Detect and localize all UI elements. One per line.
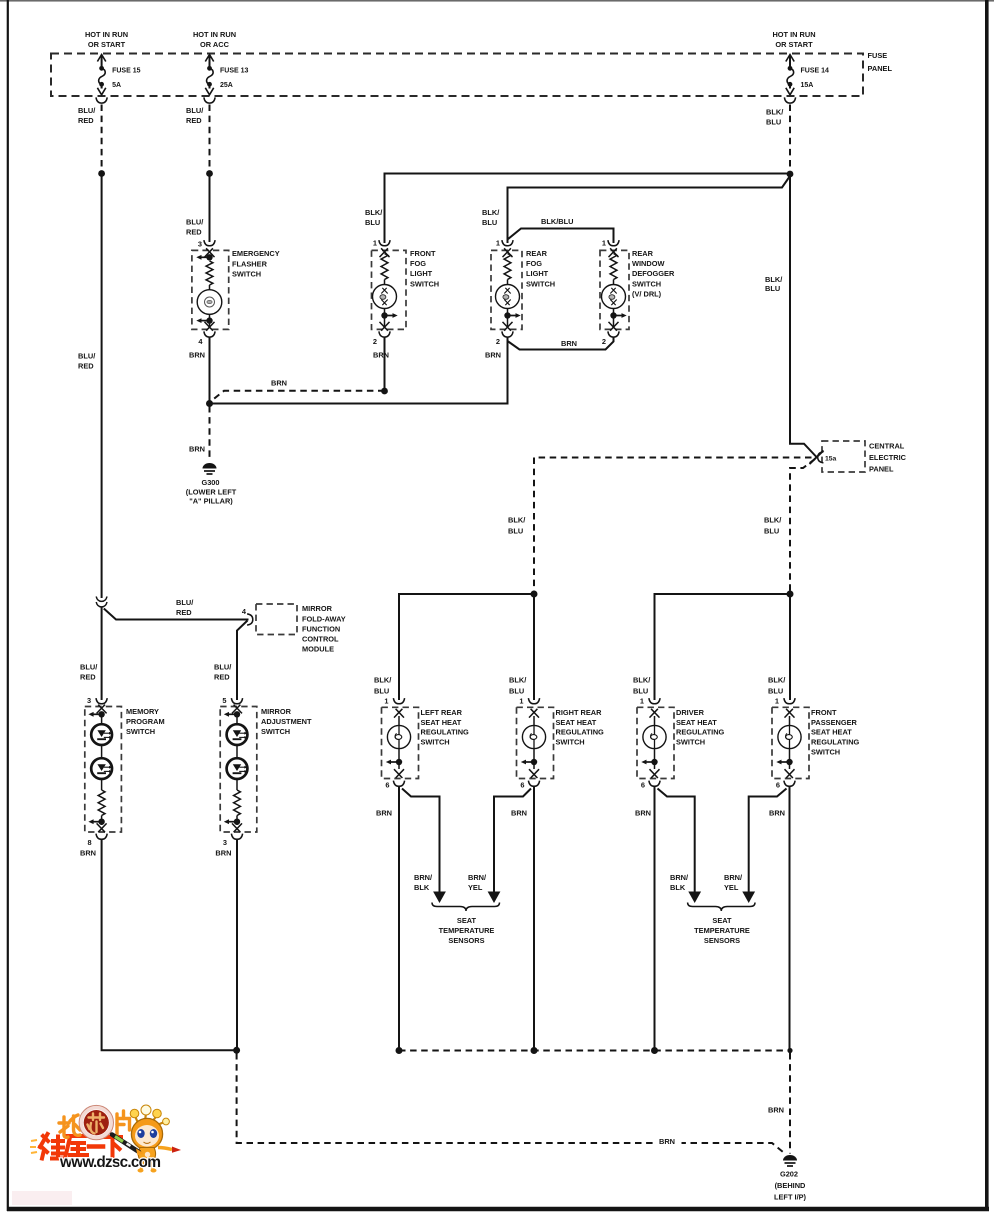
wire label BLU/RED (memory switch) <box>80 663 97 682</box>
pin 1 connector (left rear seat heat regulating switch) <box>384 697 404 706</box>
bottom contact arrow (mirror adjustment switch) <box>224 816 242 833</box>
junction dot bottom left <box>233 1047 240 1054</box>
wire label BLU/RED (col2 top) <box>186 106 203 125</box>
svg-text:CENTRAL: CENTRAL <box>869 442 905 451</box>
wire: flasher pin4 down to junction <box>209 337 211 404</box>
wire label BRN (driver) <box>635 809 651 818</box>
pin 1 connector (front passenger seat heat regulating switch) <box>775 697 795 706</box>
wire: rear fog / defogger BRN jumper <box>508 337 614 350</box>
wire: rear fog down + BRN bus to flasher junction <box>210 337 508 404</box>
ground label G300 (LOWER LEFT "A" PILLAR) <box>186 478 237 506</box>
pin 1 connector (rear window defogger switch) <box>602 239 619 248</box>
fuse value label FUSE 14 15A <box>801 68 830 90</box>
junction dot flasher BRN <box>206 400 213 407</box>
fuse panel label <box>868 51 893 73</box>
rear fog light switch <box>491 249 555 329</box>
fuse value label FUSE 13 25A <box>220 68 249 90</box>
svg-text:SEAT: SEAT <box>712 916 732 925</box>
svg-text:1: 1 <box>775 697 779 706</box>
wire: dashed BRN to G202 (lower run) <box>237 1053 783 1152</box>
svg-text:REGULATING: REGULATING <box>421 728 470 737</box>
svg-text:BRN: BRN <box>189 351 205 360</box>
wire label BRN (rear fog pin 2) <box>485 351 501 360</box>
front fog light switch <box>372 249 440 329</box>
svg-text:FUSE 14: FUSE 14 <box>801 68 830 75</box>
svg-text:SWITCH: SWITCH <box>126 727 155 736</box>
svg-text:BRN: BRN <box>511 809 527 818</box>
svg-text:3: 3 <box>87 696 91 705</box>
svg-text:BLU: BLU <box>509 687 524 696</box>
wire: driver switch output down <box>654 787 656 1051</box>
svg-text:HOT IN RUN: HOT IN RUN <box>772 30 815 39</box>
junction dot front passenger bottom <box>787 1048 792 1053</box>
fuse F13 25A with feed arrows <box>204 55 215 104</box>
wire label BRN (G202 lead) <box>768 1106 784 1115</box>
svg-text:(BEHIND: (BEHIND <box>775 1181 806 1190</box>
wire label BLU/RED (module branch) <box>176 598 193 617</box>
svg-text:SWITCH: SWITCH <box>410 279 439 288</box>
pin 2 connector (rear window defogger switch) <box>602 331 619 346</box>
wire: mirror adjustment switch down <box>236 839 238 1049</box>
svg-text:YEL: YEL <box>468 883 483 892</box>
wire: col6 solid drop to central electric panel <box>790 174 817 457</box>
wire label BLU/RED (col1 top) <box>78 106 95 125</box>
splice junction col1 <box>98 170 105 177</box>
pin 3 connector (memory program switch) <box>87 696 107 705</box>
svg-text:REGULATING: REGULATING <box>556 728 605 737</box>
svg-text:BLK/BLU: BLK/BLU <box>541 217 573 226</box>
svg-text:FUSE 15: FUSE 15 <box>112 68 141 75</box>
svg-text:BLU: BLU <box>508 527 523 536</box>
svg-text:FRONT: FRONT <box>410 249 436 258</box>
junction dot left distribution <box>531 591 538 598</box>
wire: dashed BRN down to G202 <box>789 1053 791 1154</box>
svg-text:6: 6 <box>641 781 645 790</box>
svg-text:RED: RED <box>78 362 94 371</box>
svg-text:RED: RED <box>186 228 202 237</box>
svg-text:RED: RED <box>186 116 202 125</box>
resistor element (rear window defogger switch) <box>610 254 617 280</box>
junction dot right rear bottom <box>531 1047 538 1054</box>
wire: right rear switch output down <box>533 787 535 1051</box>
emergency flasher switch <box>192 249 280 329</box>
wire: dashed drop from fuse 13 <box>209 105 211 171</box>
wire: to driver seat switch <box>655 594 791 700</box>
flasher internal contact arrow (bottom) <box>196 314 214 330</box>
seat temperature sensors brace (group 2) <box>688 903 755 912</box>
wire: BLK/BLU bus to front fog switch (line1) <box>385 174 791 244</box>
svg-text:BRN: BRN <box>768 1106 784 1115</box>
bottom contact arrow (memory program switch) <box>88 816 106 833</box>
mirror fold-away module label <box>302 604 346 653</box>
contact arrow top (mirror adjustment switch) <box>224 705 242 724</box>
svg-text:BLU/: BLU/ <box>186 218 203 227</box>
output dot with arrow (left rear seat heat regulating switch) <box>386 749 404 778</box>
flasher resistor element <box>206 261 213 285</box>
svg-text:1: 1 <box>519 697 523 706</box>
central electric panel label <box>869 442 907 474</box>
wire: dashed BLK/BLU from panel to left drop <box>534 458 812 593</box>
svg-text:6: 6 <box>520 781 524 790</box>
pin 8 connector (memory program switch) <box>87 834 107 848</box>
wire label BRN/BLK (group 1) <box>414 873 432 892</box>
svg-text:SWITCH: SWITCH <box>232 270 261 279</box>
pin 2 connector (front fog light switch) <box>373 331 390 346</box>
fuse value label FUSE 15 5A <box>112 68 141 90</box>
svg-text:G300: G300 <box>201 478 219 487</box>
svg-text:OR ACC: OR ACC <box>200 40 230 49</box>
svg-text:BLU: BLU <box>766 118 781 127</box>
wire label BLK/BLU (driver seat heat regulating switch) <box>633 676 650 696</box>
junction dot right distribution <box>787 591 794 598</box>
wire: left rear switch output down <box>398 787 400 1051</box>
svg-text:G202: G202 <box>780 1170 798 1179</box>
connector receptacle at central electric panel <box>818 452 824 463</box>
pin 6 connector (right rear seat heat regulating switch) <box>520 781 539 790</box>
ground G300 symbol <box>203 463 217 474</box>
wire: dashed drop from fuse 14 <box>789 105 791 171</box>
svg-text:BRN: BRN <box>635 809 651 818</box>
illumination lamp (rear fog light switch) <box>496 280 520 309</box>
wire label BLK/BLU (right drop) <box>764 516 781 536</box>
svg-text:BLU: BLU <box>633 687 648 696</box>
wire: col1 to memory program switch <box>101 608 103 701</box>
wire: right rear sensor branch BRN/YEL <box>494 789 531 892</box>
wire label BRN (memory program switch) <box>80 849 96 858</box>
wire label BLU/RED (col1 mid) <box>78 352 95 371</box>
svg-text:RED: RED <box>214 673 230 682</box>
svg-text:SENSORS: SENSORS <box>704 936 740 945</box>
pin 6 connector (left rear seat heat regulating switch) <box>385 781 404 790</box>
wire label BRN/YEL (group 1) <box>468 873 486 892</box>
LED 2 (mirror adjustment switch) <box>227 745 248 790</box>
svg-text:BRN/: BRN/ <box>414 873 432 882</box>
svg-text:SWITCH: SWITCH <box>526 279 555 288</box>
svg-text:HOT IN RUN: HOT IN RUN <box>85 30 128 39</box>
wire label BLK/BLU (col6 top) <box>766 108 783 127</box>
svg-text:BLU: BLU <box>374 687 389 696</box>
pin 1 connector (front fog light switch) <box>373 239 390 248</box>
svg-text:REAR: REAR <box>526 249 548 258</box>
svg-text:SEAT HEAT: SEAT HEAT <box>676 718 717 727</box>
svg-text:FOG: FOG <box>526 259 542 268</box>
svg-text:25A: 25A <box>220 82 233 89</box>
svg-text:3: 3 <box>223 838 227 847</box>
wire label BLK/BLU (left rear seat heat regulating switch) <box>374 676 391 696</box>
mirror fold-away function control module box <box>256 604 297 635</box>
svg-text:5A: 5A <box>112 82 121 89</box>
wire label BRN (front fog pin 2) <box>373 351 389 360</box>
pin 6 connector (driver seat heat regulating switch) <box>641 781 660 790</box>
svg-text:BLU: BLU <box>482 218 497 227</box>
wire label BLK/BLU (front fog) <box>365 208 382 227</box>
watermark logo www.dzsc.com (decorative) <box>30 1105 181 1173</box>
wire: dashed BLK/BLU from panel to right drop <box>790 459 815 592</box>
contact arrow top (memory program switch) <box>88 705 106 724</box>
wire: front passenger switch output down <box>789 787 791 1051</box>
pin 1 connector (rear fog light switch) <box>496 239 513 248</box>
wire: to right rear seat switch <box>533 594 535 700</box>
contact arrow top (right rear seat heat regulating switch) <box>529 709 539 726</box>
contact arrow top (front passenger seat heat regulating switch) <box>785 709 795 726</box>
fuse panel dashed box <box>51 54 863 97</box>
wire: memory switch down and across <box>102 839 234 1050</box>
power label HOT IN RUN OR ACC (col 2) <box>193 30 236 49</box>
svg-text:BLK/: BLK/ <box>764 516 781 525</box>
svg-text:BRN: BRN <box>215 849 231 858</box>
svg-text:FUNCTION: FUNCTION <box>302 624 340 633</box>
output dot with arrow (front passenger seat heat regulating switch) <box>776 749 794 778</box>
svg-text:REAR: REAR <box>632 249 654 258</box>
resistor element (front fog light switch) <box>381 254 388 280</box>
wire label BLK/BLU (jumper) <box>541 217 573 226</box>
svg-text:BRN/: BRN/ <box>670 873 688 882</box>
svg-text:REGULATING: REGULATING <box>811 738 860 747</box>
svg-text:BLU/: BLU/ <box>214 663 231 672</box>
fuse F15 5A with feed arrows <box>96 55 107 104</box>
svg-text:EMERGENCY: EMERGENCY <box>232 249 280 258</box>
svg-text:SWITCH: SWITCH <box>261 727 290 736</box>
wire label BRN (front passenger) <box>769 809 785 818</box>
pin 6 connector (front passenger seat heat regulating switch) <box>776 781 795 790</box>
svg-text:FUSE: FUSE <box>868 51 888 60</box>
svg-text:PASSENGER: PASSENGER <box>811 718 858 727</box>
pale pink block bottom-left <box>12 1191 72 1205</box>
svg-text:ELECTRIC: ELECTRIC <box>869 453 907 462</box>
svg-text:BLK/: BLK/ <box>508 516 525 525</box>
wire: front passenger sensor branch BRN/YEL <box>749 789 787 892</box>
svg-text:LIGHT: LIGHT <box>410 269 433 278</box>
svg-text:"A" PILLAR): "A" PILLAR) <box>189 497 233 506</box>
wire label BLK/BLU (left drop) <box>508 516 525 536</box>
wire label BLK/BLU (front passenger seat heat regulating switch) <box>768 676 785 696</box>
svg-text:1: 1 <box>384 697 388 706</box>
svg-text:BRN: BRN <box>485 351 501 360</box>
svg-text:FRONT: FRONT <box>811 708 837 717</box>
illumination lamp (rear window defogger switch) <box>602 280 626 309</box>
svg-text:BLU/: BLU/ <box>78 352 95 361</box>
wire label BRN (G300 lead) <box>189 445 205 454</box>
svg-text:BRN: BRN <box>373 351 389 360</box>
fuse F14 15A with feed arrows <box>784 55 795 104</box>
wire: dashed BRN bus along bottom <box>399 1050 790 1052</box>
wire: to front passenger seat switch <box>789 594 791 700</box>
svg-text:SWITCH: SWITCH <box>811 748 840 757</box>
svg-text:1: 1 <box>373 239 377 248</box>
wire: branch down to mirror adjustment switch <box>237 621 248 701</box>
svg-text:BLU: BLU <box>365 218 380 227</box>
regulating lamp (right rear seat heat regulating switch) <box>522 725 545 748</box>
svg-text:BRN: BRN <box>80 849 96 858</box>
splice junction col2 <box>206 170 213 177</box>
svg-text:8: 8 <box>87 838 91 847</box>
svg-text:BLK/: BLK/ <box>768 676 785 685</box>
wire label BRN (mirror adjustment switch) <box>215 849 231 858</box>
svg-text:BRN: BRN <box>189 445 205 454</box>
junction dot left rear bottom <box>396 1047 403 1054</box>
svg-text:2: 2 <box>496 337 500 346</box>
svg-text:TEMPERATURE: TEMPERATURE <box>694 926 750 935</box>
svg-text:YEL: YEL <box>724 883 739 892</box>
svg-text:SWITCH: SWITCH <box>421 738 450 747</box>
svg-text:FLASHER: FLASHER <box>232 259 268 268</box>
svg-text:FUSE 13: FUSE 13 <box>220 68 249 75</box>
left rear seat heat regulating switch <box>382 707 470 778</box>
wire label BRN (flasher pin 4) <box>189 351 205 360</box>
svg-text:PANEL: PANEL <box>869 464 894 473</box>
svg-text:2: 2 <box>373 337 377 346</box>
svg-text:2: 2 <box>602 337 606 346</box>
svg-text:BLU/: BLU/ <box>186 106 203 115</box>
svg-text:BLK: BLK <box>414 883 430 892</box>
right rear seat heat regulating switch <box>517 707 605 778</box>
svg-text:CONTROL: CONTROL <box>302 635 339 644</box>
flasher illumination lamp <box>197 285 222 314</box>
label seat temperature sensors (group 1) <box>439 916 495 945</box>
svg-text:5: 5 <box>222 696 226 705</box>
svg-text:RED: RED <box>80 673 96 682</box>
contact arrow top (rear window defogger switch) <box>609 248 619 257</box>
output dot with arrow (front fog light switch) <box>380 309 398 331</box>
svg-text:BRN: BRN <box>659 1137 675 1146</box>
svg-text:BRN/: BRN/ <box>724 873 742 882</box>
svg-text:BRN: BRN <box>376 809 392 818</box>
wire: dashed drop from fuse 15 <box>101 105 103 171</box>
svg-text:ADJUSTMENT: ADJUSTMENT <box>261 717 312 726</box>
wire: driver sensor branch BRN/BLK <box>658 789 695 892</box>
wire: to left rear seat switch <box>399 594 534 700</box>
svg-text:BLK/: BLK/ <box>482 208 499 217</box>
wire label BLK/BLU (col6 mid) <box>765 275 782 293</box>
regulating lamp (driver seat heat regulating switch) <box>643 725 666 748</box>
svg-text:BLU: BLU <box>768 687 783 696</box>
pin 4 connector (module) <box>242 607 253 625</box>
svg-text:FOG: FOG <box>410 259 426 268</box>
svg-text:REGULATING: REGULATING <box>676 728 725 737</box>
svg-text:BRN: BRN <box>561 339 577 348</box>
wire: dashed BRN down to G300 <box>209 406 211 462</box>
driver seat heat regulating switch <box>637 707 725 778</box>
svg-text:DRIVER: DRIVER <box>676 708 705 717</box>
power label HOT IN RUN OR START (col 3) <box>772 30 815 49</box>
output dot with arrow (rear window defogger switch) <box>609 309 627 331</box>
resistor element (mirror adjustment switch) <box>234 790 241 815</box>
wire: BLK/BLU bus to rear fog switch (line2) <box>508 176 791 243</box>
svg-text:(LOWER LEFT: (LOWER LEFT <box>186 488 237 497</box>
junction dot driver bottom <box>651 1047 658 1054</box>
LED 2 (memory program switch) <box>91 745 112 790</box>
wire: BLK/BLU jumper rear fog to defogger <box>508 229 614 244</box>
svg-text:OR START: OR START <box>88 40 126 49</box>
regulating lamp (front passenger seat heat regulating switch) <box>778 725 801 748</box>
svg-text:BLK: BLK <box>670 883 686 892</box>
rear window defogger switch <box>600 249 675 329</box>
svg-text:DEFOGGER: DEFOGGER <box>632 269 675 278</box>
LED 1 (mirror adjustment switch) <box>227 724 248 745</box>
svg-text:HOT IN RUN: HOT IN RUN <box>193 30 236 39</box>
svg-text:SEAT HEAT: SEAT HEAT <box>556 718 597 727</box>
pin 1 connector (right rear seat heat regulating switch) <box>519 697 539 706</box>
svg-text:BLU: BLU <box>765 284 780 293</box>
wire: front fog pin2 down to BRN splice <box>384 337 386 390</box>
svg-text:6: 6 <box>776 781 780 790</box>
wire label BLU/RED (mirror adjustment switch) <box>214 663 231 682</box>
wire: left rear sensor branch BRN/BLK <box>402 789 440 892</box>
svg-text:WINDOW: WINDOW <box>632 259 664 268</box>
inline connector break col1 <box>96 597 107 607</box>
svg-text:BLK/: BLK/ <box>509 676 526 685</box>
svg-text:BLU/: BLU/ <box>176 598 193 607</box>
ground label G202 (BEHIND LEFT I/P) <box>774 1170 807 1202</box>
svg-text:BLK/: BLK/ <box>633 676 650 685</box>
wire: col2 solid drop to flasher pin 3 <box>209 174 211 243</box>
svg-text:1: 1 <box>640 697 644 706</box>
ground G202 symbol <box>783 1155 797 1166</box>
front passenger seat heat regulating switch <box>772 707 860 778</box>
contact arrow top (rear fog light switch) <box>503 248 513 257</box>
svg-text:MODULE: MODULE <box>302 645 334 654</box>
wire label BRN (right rear) <box>511 809 527 818</box>
svg-text:LIGHT: LIGHT <box>526 269 549 278</box>
svg-text:BLK/: BLK/ <box>374 676 391 685</box>
svg-text:PANEL: PANEL <box>868 64 893 73</box>
wire label BRN/YEL (group 2) <box>724 873 742 892</box>
pin 5 connector (mirror adjustment switch) <box>222 696 242 705</box>
svg-text:SEAT HEAT: SEAT HEAT <box>811 728 852 737</box>
regulating lamp (left rear seat heat regulating switch) <box>387 725 410 748</box>
svg-text:(V/ DRL): (V/ DRL) <box>632 289 662 298</box>
output dot with arrow (driver seat heat regulating switch) <box>641 749 659 778</box>
LED 1 (memory program switch) <box>91 724 112 745</box>
wire: col1 solid drop <box>101 174 103 599</box>
wire: dashed BRN from front fog splice to flasher junction <box>211 391 385 402</box>
svg-text:SEAT HEAT: SEAT HEAT <box>421 718 462 727</box>
wire label BRN/BLK (group 2) <box>670 873 688 892</box>
pin 4 connector (flasher) <box>198 331 215 346</box>
svg-text:SWITCH: SWITCH <box>676 738 705 747</box>
svg-text:RED: RED <box>78 116 94 125</box>
svg-text:MIRROR: MIRROR <box>302 604 333 613</box>
output dot with arrow (rear fog light switch) <box>503 309 521 331</box>
wire label BLU/RED (col2 above pin 3) <box>186 218 203 237</box>
svg-text:RED: RED <box>176 608 192 617</box>
memory program switch <box>85 707 165 833</box>
svg-text:SWITCH: SWITCH <box>556 738 585 747</box>
svg-text:BLK/: BLK/ <box>765 275 782 284</box>
contact arrow top (front fog light switch) <box>380 248 390 257</box>
svg-text:1: 1 <box>602 239 606 248</box>
illumination lamp (front fog light switch) <box>373 280 397 309</box>
label seat temperature sensors (group 2) <box>694 916 750 945</box>
svg-text:BRN: BRN <box>769 809 785 818</box>
resistor element (rear fog light switch) <box>504 254 511 280</box>
pin 3 connector (flasher) <box>198 240 215 249</box>
svg-text:1: 1 <box>496 239 500 248</box>
svg-text:BRN: BRN <box>271 379 287 388</box>
connector X at central electric panel <box>810 451 824 465</box>
svg-text:BLU/: BLU/ <box>78 106 95 115</box>
svg-text:BLU/: BLU/ <box>80 663 97 672</box>
wire label BRN (lower dashed run) <box>657 1136 682 1147</box>
svg-text:15A: 15A <box>801 82 814 89</box>
splice dot front fog BRN <box>381 388 388 395</box>
svg-text:MEMORY: MEMORY <box>126 707 159 716</box>
svg-text:LEFT REAR: LEFT REAR <box>421 708 463 717</box>
central electric panel box <box>822 441 865 472</box>
svg-text:FOLD-AWAY: FOLD-AWAY <box>302 614 346 623</box>
svg-text:SENSORS: SENSORS <box>448 936 484 945</box>
svg-text:BLU: BLU <box>764 527 779 536</box>
